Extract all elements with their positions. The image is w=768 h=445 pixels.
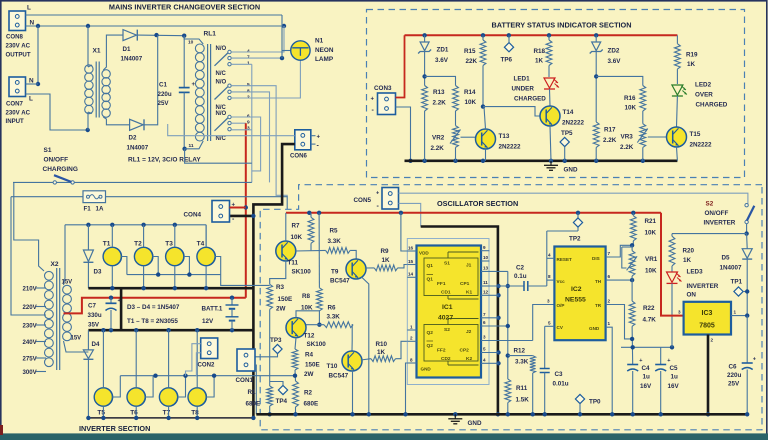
label N1 NEON LAMP [315,38,334,64]
transistor T9 BC547 [330,259,366,285]
IC1 4027 body [417,246,482,378]
svg-text:210V: 210V [23,286,38,293]
svg-text:4027: 4027 [438,315,453,322]
relay RL1 label [204,31,217,38]
diode D1 1N4007 [121,30,143,63]
svg-text:2.2K: 2.2K [603,137,617,144]
svg-text:VR3: VR3 [621,134,634,141]
wire T11 emitter to R3 [270,261,286,284]
svg-text:CON5: CON5 [354,197,372,204]
black elbow battery negative [421,227,501,417]
battery section ground bus [405,159,678,163]
svg-text:2: 2 [247,94,250,100]
svg-text:S1: S1 [44,147,52,154]
IC1 pin 4 [481,358,499,364]
svg-text:INVERTER: INVERTER [687,283,719,290]
wire S1 to X2 primary top [14,182,44,271]
wire T9 emitter [362,277,369,414]
svg-text:C5: C5 [670,365,679,372]
svg-text:+: + [317,134,321,140]
svg-text:10: 10 [188,40,194,46]
svg-text:TP0: TP0 [589,399,601,406]
svg-text:150E: 150E [278,296,293,303]
transistor T11 SK100 [276,241,311,276]
svg-text:NE555: NE555 [565,297,586,304]
svg-text:R9: R9 [381,248,390,255]
svg-text:D3 – D4 = 1N5407: D3 – D4 = 1N5407 [127,304,180,311]
svg-text:CON8: CON8 [6,33,24,40]
X2 tap 210V [23,286,47,293]
svg-text:INPUT: INPUT [6,118,25,125]
svg-text:8: 8 [410,357,413,362]
wire CON4 + red stub [230,207,246,209]
svg-text:R5: R5 [330,228,339,235]
diode D5 1N4007 [720,234,753,316]
svg-text:7: 7 [483,312,486,317]
wire X1 primary top to N line [88,26,92,67]
wire T7 collector [168,330,170,388]
svg-text:UNDER: UNDER [512,86,535,93]
wire relay pin 9 red feed [231,122,246,124]
wire T4 emitter [205,266,207,289]
svg-text:GND: GND [421,367,432,372]
IC2 labels [557,256,602,331]
diode D2 1N4007 [127,119,149,151]
test point TP1 [731,279,750,297]
svg-text:8: 8 [247,88,250,94]
switch S1 ON/OFF CHARGING [13,175,252,184]
wire T2 base [153,257,159,275]
svg-text:N: N [29,77,34,84]
svg-text:10K: 10K [645,268,657,275]
transformer X2 label [51,261,59,268]
transistor T8 2N3055 [188,388,206,417]
transistor T15 2N2222 [667,127,713,149]
wire CON7 L to X1 primary bottom [26,94,90,132]
wire C5 top node [621,345,674,364]
svg-text:1: 1 [734,310,737,315]
svg-text:1K: 1K [382,257,391,264]
svg-text:6: 6 [608,274,611,279]
svg-text:3.3K: 3.3K [515,359,529,366]
svg-text:T3: T3 [165,241,173,248]
svg-text:N/O: N/O [216,46,227,52]
svg-text:LED2: LED2 [695,82,712,89]
svg-text:CHARGED: CHARGED [696,102,728,109]
svg-text:N1: N1 [315,38,324,45]
svg-text:R4: R4 [305,352,314,359]
svg-text:R16: R16 [624,95,636,102]
resistor R2 680E [293,381,319,414]
svg-text:OUTPUT: OUTPUT [6,51,31,58]
oscillator ground bus [256,412,749,416]
connector CON8 [6,11,31,58]
svg-text:6: 6 [483,320,486,325]
svg-text:1u: 1u [671,374,679,381]
wire C1 negative net to S1 net [185,149,252,163]
clock wire pin13 to divider [506,271,510,379]
switch S2 ON/OFF INVERTER [744,204,754,236]
svg-text:CON3: CON3 [374,85,392,92]
transistor T1 2N3055 [103,241,122,266]
emitter bus T1-T4 (black) [88,286,253,290]
svg-text:T9: T9 [331,269,339,276]
svg-text:16V: 16V [668,383,680,390]
svg-text:VR1: VR1 [645,256,658,263]
label N (CON8) [30,19,35,26]
wire ZD1 node to R14 [425,76,456,85]
svg-text:S2: S2 [706,201,714,208]
svg-text:TP4: TP4 [276,398,288,405]
svg-text:R18: R18 [534,48,546,55]
svg-text:J2: J2 [466,329,472,335]
svg-text:Q2: Q2 [427,343,434,349]
connector CON5 [354,188,399,211]
wire red rail down to IC3 input [661,213,684,316]
svg-text:150E: 150E [305,362,320,369]
svg-text:35V: 35V [88,322,100,329]
svg-text:D1: D1 [123,46,131,53]
svg-text:7: 7 [608,251,611,256]
wire bundle vertical x251.8 [251,64,253,182]
wire T10 emitter [352,371,354,414]
svg-text:680E: 680E [246,401,261,408]
wire VR3 wiper to T15 base [648,136,667,138]
wire T6 collector [135,330,137,388]
wire T12 top to R8 [296,311,319,318]
transistor T6 2N3055 [127,388,145,417]
svg-text:CP1: CP1 [460,281,470,287]
svg-text:330u: 330u [88,312,102,319]
svg-text:BATTERY STATUS INDICATOR SECTI: BATTERY STATUS INDICATOR SECTION [492,21,632,30]
svg-text:CP2: CP2 [460,348,470,354]
svg-text:ON: ON [687,292,697,299]
svg-text:D4: D4 [92,341,100,348]
battery section dashed border [367,10,745,178]
svg-text:CON1: CON1 [236,377,254,384]
svg-text:RL1 = 12V, 3C/O RELAY: RL1 = 12V, 3C/O RELAY [128,157,201,164]
X2 tap 240V [23,339,47,346]
transformer X2 core [57,268,60,370]
svg-text:2N2222: 2N2222 [499,144,522,151]
svg-text:2: 2 [410,336,413,341]
svg-text:9: 9 [483,245,486,250]
IC2 pin 3 O/P [547,299,550,304]
IC1 pin 14 Q1bar [407,272,416,278]
svg-text:230V AC: 230V AC [6,109,31,116]
transistor T3 2N3055 [165,241,184,266]
svg-text:C4: C4 [642,365,651,372]
svg-text:1: 1 [608,321,611,326]
wire CON6 - black to CON4 [253,144,294,418]
resistor R7 10K [291,213,314,251]
svg-text:220u: 220u [727,372,742,379]
svg-text:R11: R11 [516,385,528,392]
IC1 pin 9 [481,245,490,251]
wire CON2 bottom stub [196,353,200,376]
wire relay pin 3 [231,129,252,131]
svg-text:1N4007: 1N4007 [121,56,143,63]
svg-text:2N2222: 2N2222 [562,120,585,127]
diode D4 1N5407 [83,330,100,418]
resistor R17 2.2K [593,122,616,161]
resistor R19 1K [675,35,699,84]
battery BATT.1 12V [226,298,239,331]
wire R15 node to T14 base [483,107,541,116]
svg-text:T2: T2 [134,241,142,248]
svg-text:T11: T11 [288,260,299,267]
svg-text:OSCILLATOR SECTION: OSCILLATOR SECTION [437,199,518,208]
capacitor C4 1u 16V [627,358,652,414]
svg-text:13: 13 [483,266,489,271]
svg-text:2W: 2W [276,306,286,313]
clock wire pin3 to 555 output [533,305,555,341]
connector CON2 [198,338,218,369]
svg-text:K1: K1 [466,290,472,296]
wire T8 collector [196,330,198,388]
svg-text:+: + [371,97,375,103]
wire T13 emitter [485,149,487,161]
wire T2 collector [143,225,145,248]
wire T4 base [215,257,221,275]
svg-text:O/P: O/P [557,303,565,308]
IC1 FF1 labels [419,251,472,296]
svg-text:R6: R6 [328,305,337,312]
svg-text:R22: R22 [643,305,655,312]
IC3 7805 body [684,302,731,335]
svg-text:1A: 1A [96,206,104,213]
svg-text:12: 12 [483,290,489,295]
svg-text:+: + [667,358,670,364]
capacitor C7 330u 35V [106,298,121,331]
wire CON3 + to rail [396,35,405,97]
relay contact group 2 (pins 5/8/2) [215,80,251,111]
resistor R12 3.3K [514,348,536,415]
svg-text:1N4007: 1N4007 [720,265,743,272]
svg-text:K2: K2 [466,356,472,362]
wire R4 bottom to base chain and R2 [293,370,297,381]
X2 tap 275V [23,356,47,363]
resistor R11 1.5K [505,379,529,414]
svg-text:4: 4 [483,358,486,363]
capacitor C3 0.01u [540,326,569,414]
preset VR2 2.2K [431,126,461,161]
label BATT.1 12V [202,306,223,326]
svg-text:SK100: SK100 [307,341,327,348]
transistor T10 BC547 [327,351,363,380]
preset VR1 10K [622,245,658,301]
svg-text:N/O: N/O [216,111,227,117]
wire relay pin 7 to L vertical [231,56,284,60]
wire T8 emitter [196,406,198,418]
svg-text:T8: T8 [191,410,199,417]
transformer X1 primary winding [85,65,93,114]
svg-text:OVER: OVER [695,92,713,99]
svg-text:GND: GND [468,420,482,427]
resistor R14 10K [453,86,477,126]
svg-text:3.6V: 3.6V [608,58,622,65]
wire T11 collector to rail [285,213,287,241]
transformer X2 secondary winding [63,285,72,340]
wire X1 secondary bottom [103,117,129,125]
wire T3 emitter [174,266,176,289]
svg-text:R8: R8 [302,293,311,300]
svg-text:1K: 1K [683,257,692,264]
svg-text:1K: 1K [535,58,544,65]
capacitor C6 220u 25V [727,316,756,415]
test point TP3 [270,337,282,354]
svg-text:D5: D5 [722,255,731,262]
resistor R9 1K [365,248,408,271]
resistor R10 1K [361,341,408,362]
svg-text:T14: T14 [563,109,574,116]
svg-text:2.2K: 2.2K [433,100,447,107]
transformer X1 core [96,62,99,118]
IC2 pin 1 GND [606,321,613,414]
svg-text:FF1: FF1 [437,281,446,287]
ground symbol battery section [544,161,578,174]
wire T12 base [306,324,324,326]
wire L phase from CON8 [26,14,283,16]
wire T1 base [121,257,127,275]
resistor R4 150E 2W [292,349,320,378]
IC1 pin 11 [481,280,490,286]
svg-text:ZD1: ZD1 [437,47,449,54]
IC1 outer outline [407,239,489,385]
IC1 pin 8 GND [406,357,417,414]
svg-text:+: + [118,298,121,304]
svg-text:3: 3 [547,299,550,304]
label T1-T8 = 2N3055 [127,318,178,325]
transformer X2 primary winding [45,271,54,366]
wire CON4 - stub [230,214,256,218]
svg-text:2N2222: 2N2222 [690,142,713,149]
wire X2 centre tap red [64,296,246,314]
svg-text:11: 11 [483,280,488,285]
svg-text:C1: C1 [159,82,167,89]
svg-text:2.2K: 2.2K [431,145,445,152]
resistor R22 4.7K [629,301,656,364]
test point TP0 [575,394,601,416]
svg-text:1.5K: 1.5K [516,397,530,404]
svg-text:5: 5 [548,320,551,325]
bottom teal strip [0,425,768,440]
collector bus T1-T4 [65,223,206,248]
relay pin 11 lead [185,141,204,149]
capacitor C2 0.1u [490,265,547,292]
svg-text:1K: 1K [377,349,386,356]
svg-text:R17: R17 [604,127,616,134]
svg-text:R12: R12 [514,348,526,355]
wire T5 base [112,376,120,397]
LED3 red [667,266,682,347]
svg-text:3.6V: 3.6V [435,57,449,64]
svg-text:+: + [376,191,379,197]
svg-text:230V AC: 230V AC [6,42,31,49]
wire R3 bottom to R1 [269,309,271,386]
svg-text:X2: X2 [51,261,59,268]
inverter bottom rail [86,416,255,420]
svg-text:1K: 1K [687,61,696,68]
svg-text:R2: R2 [304,390,313,397]
svg-text:J1: J1 [466,263,472,269]
wire T12 emitter to R4 [295,338,296,349]
svg-text:1N4007: 1N4007 [127,144,149,151]
svg-text:LAMP: LAMP [315,56,334,63]
svg-text:4: 4 [548,252,551,257]
wire X1 primary bottom [88,112,92,130]
wire CON6 + long feed [168,124,295,136]
svg-text:INVERTER SECTION: INVERTER SECTION [79,424,150,433]
svg-text:INVERTER: INVERTER [704,219,736,226]
svg-text:N: N [30,19,35,26]
transistor T4 2N3055 [197,241,216,266]
svg-text:R1: R1 [248,389,257,396]
relay contact group 1 (pins 4/7/1) [215,46,251,77]
IC2 pin 8 Vcc [547,274,555,280]
svg-text:C7: C7 [88,303,96,310]
svg-text:ON/OFF: ON/OFF [705,210,729,217]
svg-text:Q1: Q1 [427,277,434,283]
svg-text:NEON: NEON [315,47,334,54]
svg-text:CHARGING: CHARGING [43,166,78,173]
IC1 pin 15 Q1 [407,259,416,265]
svg-text:16V: 16V [640,383,652,390]
test point TP2 [569,218,583,243]
resistor R5 3.3K [326,228,351,254]
test point TP4 [276,385,288,405]
zener ZD1 3.6V [418,35,449,85]
svg-text:275V: 275V [23,356,38,363]
svg-text:T12: T12 [304,333,315,340]
svg-text:D2: D2 [129,135,137,142]
wire VR2 wiper to T13 base [461,136,477,138]
transistor T5 2N3055 [94,388,112,417]
label INVERTER SECTION [79,424,150,433]
oscillator section dashed border [260,185,762,430]
label LED1 UNDER CHARGED [512,76,547,103]
IC2 pin 7 DIS [606,245,632,257]
relay RL1 core [208,44,211,141]
svg-text:L: L [29,95,33,102]
IC1 pin 3 [481,335,533,341]
fuse F1 1A [11,191,106,315]
svg-text:LED1: LED1 [514,76,531,83]
wire T14 emitter [550,126,551,161]
svg-text:T15: T15 [690,131,701,138]
label S2 ON/OFF INVERTER [704,201,736,227]
svg-text:2: 2 [711,338,714,343]
svg-text:IC3: IC3 [702,310,713,317]
base chain T5-T8 [120,374,295,378]
svg-text:GND: GND [589,326,600,331]
capacitor C5 1u 16V [655,358,679,414]
svg-text:Q2: Q2 [427,330,434,336]
svg-text:TP3: TP3 [270,337,282,344]
LED2 green [672,85,687,127]
svg-text:T5: T5 [97,410,105,417]
resistor R1 680E [246,386,273,416]
transformer X1 secondary winding [102,70,110,118]
wire red battery positive from relay pin 9 [244,123,248,298]
IC1 pin 7 [481,312,499,318]
svg-text:FF2: FF2 [437,348,446,354]
svg-text:T6: T6 [130,410,138,417]
resistor R8 10K [301,213,322,312]
wire T6 base [145,376,153,397]
test point TP6 [501,35,514,63]
wire CON8-N to CON7-N [36,26,40,86]
